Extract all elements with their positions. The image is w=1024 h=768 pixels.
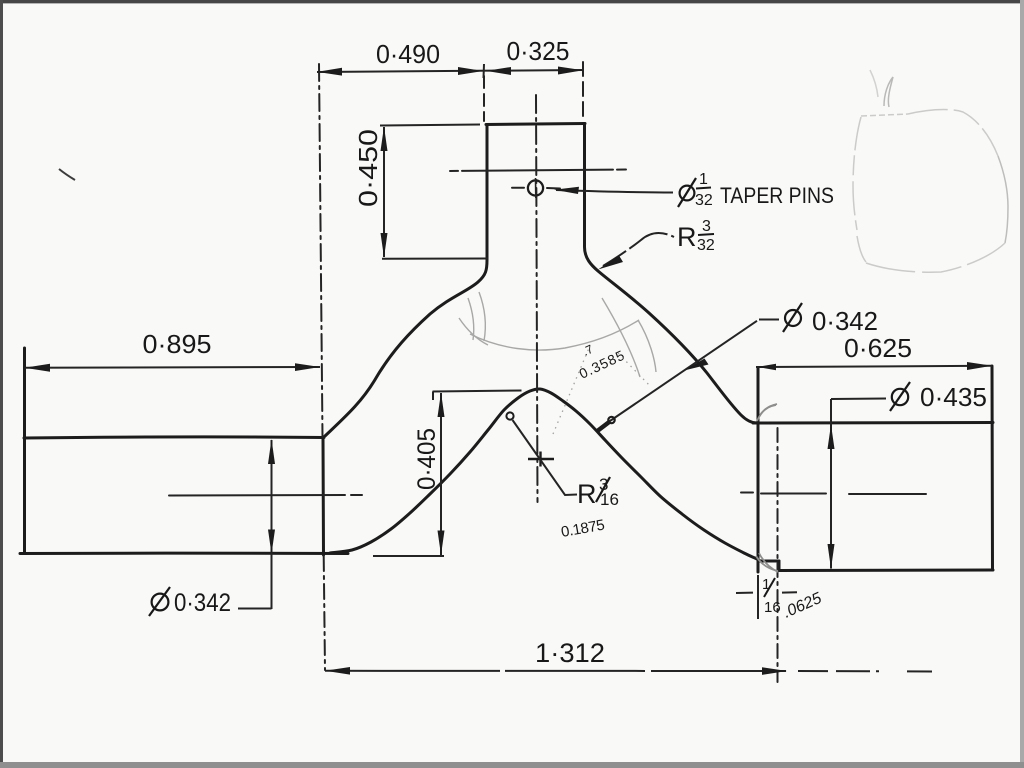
R 3/32 label and leader xyxy=(603,233,674,266)
stem right edge and upper-right S-curve xyxy=(585,124,758,424)
svg-text:0·435: 0·435 xyxy=(920,382,987,412)
faint pencil sketch top right xyxy=(853,70,1008,272)
taper pin hole xyxy=(528,180,543,195)
svg-text:0·342: 0·342 xyxy=(174,589,231,617)
right bar top edge xyxy=(753,421,993,425)
right bar right edge (with 0.625 extension) xyxy=(991,366,995,570)
leader from 0.342 label to curves xyxy=(607,321,757,423)
svg-text:32: 32 xyxy=(697,237,715,254)
svg-text:0·405: 0·405 xyxy=(413,428,441,490)
left bar left edge (also 0.895 extension) xyxy=(23,348,26,553)
svg-text:1·312: 1·312 xyxy=(535,638,605,668)
left bar right edge xyxy=(322,438,326,555)
scan border frame xyxy=(0,0,1024,3)
extension dash x=583 above stem xyxy=(582,62,584,122)
dotted pencil construction rays xyxy=(553,348,589,434)
vertical center axis of part dash-dot xyxy=(536,95,538,502)
right bar vertical dash-dot centerline x=777.5 xyxy=(777,428,779,682)
body upper-left S-curve and stem left edge xyxy=(325,125,487,436)
svg-text:R: R xyxy=(577,479,597,509)
stem top edge xyxy=(486,124,585,125)
svg-text:R: R xyxy=(677,222,697,252)
pin horizontal centerline y=170 xyxy=(450,170,630,172)
right bar bottom edge xyxy=(779,569,993,573)
extension dash x=484 above stem xyxy=(483,76,485,121)
svg-text:TAPER PINS: TAPER PINS xyxy=(720,183,834,208)
svg-text:0·325: 0·325 xyxy=(507,36,570,66)
svg-text:16: 16 xyxy=(764,599,781,616)
svg-text:0·895: 0·895 xyxy=(143,329,212,359)
svg-text:1: 1 xyxy=(699,171,708,188)
left bar horizontal centerline xyxy=(169,494,345,497)
right bar bottom-left step xyxy=(778,561,781,571)
svg-text:0·450: 0·450 xyxy=(353,129,383,207)
right bar bottom-left ledge xyxy=(758,560,779,563)
taper pin leader xyxy=(556,190,673,193)
dash-dot below left bar down to 1.312 xyxy=(324,556,325,670)
hump radius center cross xyxy=(528,452,554,467)
right bar left edge (with 0.625 extension above) xyxy=(757,368,760,572)
left bar top edge xyxy=(24,437,324,438)
svg-text:1: 1 xyxy=(762,576,770,593)
svg-text:0·490: 0·490 xyxy=(376,39,440,69)
svg-text:16: 16 xyxy=(600,490,619,509)
svg-text:32: 32 xyxy=(695,192,713,209)
svg-text:0·342: 0·342 xyxy=(812,306,878,336)
svg-text:3: 3 xyxy=(702,218,711,235)
stray pen mark left xyxy=(59,169,75,180)
left bar bottom edge xyxy=(20,552,348,555)
left vertical extension dash-dot x=320 (0.490 / 0.895) xyxy=(319,64,323,437)
pencil smudges at right bar corners xyxy=(756,404,778,572)
phi 1/32 TAPER PINS label xyxy=(678,178,696,207)
taper pin hole side ticks xyxy=(512,187,560,190)
right bar horizontal centerline xyxy=(741,493,926,495)
svg-text:0·625: 0·625 xyxy=(844,333,912,363)
faint pencil construction arcs near neck xyxy=(459,292,656,377)
hump lower profile xyxy=(330,389,760,561)
